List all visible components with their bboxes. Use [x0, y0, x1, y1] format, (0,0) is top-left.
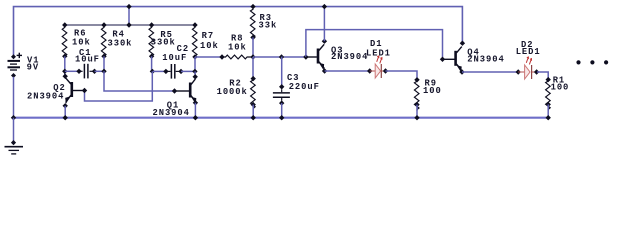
svg-text:100: 100: [551, 82, 570, 92]
wire Q1 emitter to ground rail: [194, 103, 196, 118]
wire ground stub: [13, 118, 15, 143]
svg-text:R7: R7: [202, 31, 214, 41]
node C1 right junction: [101, 69, 106, 74]
wire second rail: [65, 24, 195, 26]
wire C2 right node to Q1 collector: [194, 71, 196, 76]
LED D2: [516, 57, 540, 79]
wire cross-coupling loop to Q4 base: [306, 30, 443, 60]
node rail link top junction: [126, 4, 131, 9]
wire top power rail: [14, 7, 463, 58]
svg-text:10k: 10k: [72, 37, 91, 47]
svg-text:9V: 9V: [27, 63, 39, 73]
node Q1 emitter rail junction: [193, 115, 198, 120]
wire rail link: [128, 7, 130, 25]
wire R4 bottom to C1 right: [103, 56, 105, 71]
capacitor C2: [153, 64, 195, 79]
svg-text:10k: 10k: [200, 41, 219, 51]
transistor Q2: [62, 74, 87, 109]
continuation dots: [576, 60, 608, 64]
svg-text:1000k: 1000k: [217, 87, 248, 97]
svg-text:LED1: LED1: [516, 47, 541, 57]
wire R3 bottom to mid node: [252, 37, 254, 57]
svg-text:10uF: 10uF: [162, 53, 187, 63]
svg-text:2N3904: 2N3904: [331, 52, 368, 62]
wire C1 node to Q1 base: [104, 71, 175, 91]
wire bottom ground rail: [14, 117, 549, 119]
svg-text:330k: 330k: [151, 38, 176, 48]
resistor R8: [219, 54, 255, 59]
svg-text:2N3904: 2N3904: [467, 55, 504, 65]
wire mid node left segment: [195, 56, 222, 58]
transistor Q1: [172, 74, 198, 105]
wire Q2 emitter to ground rail: [64, 106, 66, 118]
node C3 top junction: [279, 54, 284, 59]
ground: [5, 140, 24, 154]
node rail link bottom junction: [126, 22, 131, 27]
svg-text:33k: 33k: [259, 21, 278, 31]
node bottom-left corner junction: [11, 115, 16, 120]
node Q2 emitter rail junction: [62, 115, 67, 120]
resistor R7: [192, 22, 197, 59]
wire left rail lower: [13, 77, 15, 118]
wire R7 bottom to C2 right: [194, 57, 196, 71]
node C2 left junction: [150, 69, 155, 74]
resistor R2: [251, 57, 256, 120]
svg-text:2N3904: 2N3904: [153, 108, 190, 118]
battery V1: [8, 53, 23, 78]
node C1 left junction: [62, 69, 67, 74]
wire mid node right segment: [253, 56, 306, 58]
resistor R1: [546, 77, 551, 120]
svg-text:LED1: LED1: [366, 49, 391, 59]
svg-text:10k: 10k: [228, 42, 247, 52]
svg-text:100: 100: [423, 86, 442, 96]
node Q3 collector rail junction: [322, 4, 327, 9]
resistor R3: [250, 4, 255, 40]
wire R5 bottom to C2 left: [152, 56, 153, 71]
svg-text:220uF: 220uF: [289, 82, 320, 92]
svg-text:10uF: 10uF: [75, 55, 100, 65]
node Q3 base junction: [303, 54, 308, 59]
resistor R9: [414, 77, 419, 120]
resistor R6: [62, 22, 67, 59]
capacitor C3: [273, 57, 290, 120]
wire R6 bottom to C1: [64, 56, 66, 76]
transistor Q4: [440, 41, 465, 75]
capacitor C1: [65, 64, 104, 79]
transistor Q3: [306, 39, 327, 74]
svg-text:2N3904: 2N3904: [27, 92, 64, 102]
wire Q4 emitter to D2: [462, 71, 518, 73]
resistor R5: [149, 22, 154, 59]
svg-text:330k: 330k: [108, 38, 133, 48]
resistor R4: [101, 22, 106, 59]
wire D2 to R1: [537, 72, 548, 80]
wire D1 to R9: [386, 71, 418, 80]
node C2 right junction: [192, 69, 197, 74]
wire Q3 collector to top rail: [323, 7, 325, 42]
wire C2 left node to Q2 base: [85, 71, 153, 101]
wire Q3 emitter to D1: [325, 70, 370, 72]
LED D1: [367, 56, 388, 78]
